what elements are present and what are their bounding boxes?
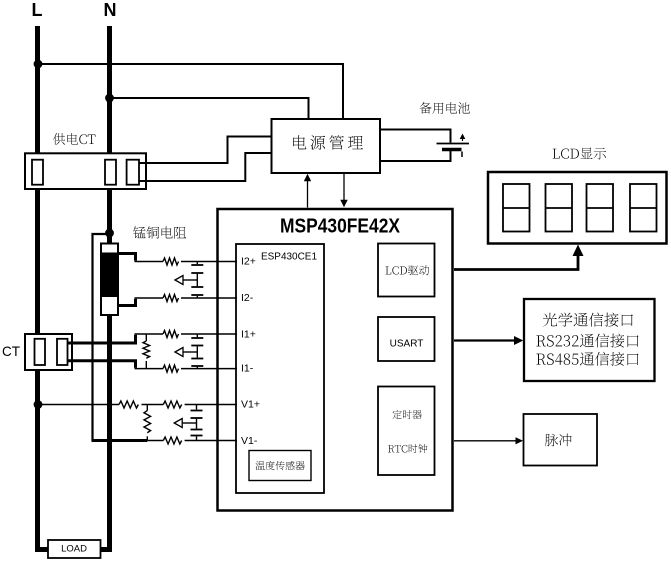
svg-text:I1+: I1+ [241, 329, 256, 341]
transformer: CT box [25, 334, 72, 370]
CT winding secondary [57, 339, 68, 365]
resistor I2+ [163, 258, 179, 265]
label temperature sensor (wendu chuanganqi) [256, 461, 305, 470]
wire N mains line [100, 26, 110, 550]
resistor V1- [163, 437, 181, 444]
capacitor C-I1 bottom [191, 358, 203, 360]
arrow timer to pulse box [454, 440, 517, 442]
battery positive plate [437, 143, 470, 145]
label power management (dianyuan guanli) [293, 135, 363, 150]
supply CT winding N [105, 160, 116, 185]
arrow USART to comm box [454, 339, 516, 341]
wire I2+ to pin [135, 261, 164, 263]
wire I1+ resistor to ESP pin [181, 333, 237, 335]
label manganin resistor (mengtong dianzu) [133, 226, 186, 238]
node L tap junction [34, 60, 43, 69]
capacitor C-I2 top [196, 262, 198, 265]
LCD digit 1 [503, 184, 530, 232]
node shunt top junction [105, 229, 114, 238]
wire I2- to pin [135, 297, 164, 299]
supply CT output winding [127, 160, 139, 185]
block: timer / RTC [378, 387, 435, 476]
wire I1- resistor to ESP pin [181, 368, 237, 370]
block: temperature sensor [249, 451, 311, 481]
block: communication interfaces [524, 299, 655, 381]
wire power to battery bottom [379, 151, 451, 162]
svg-text:LOAD: LOAD [61, 544, 87, 555]
arrow power management to MSP (down) [343, 174, 345, 201]
wire MSP to LCD display [454, 252, 578, 270]
wire N to power management [110, 98, 309, 120]
supply CT winding L [32, 160, 43, 185]
capacitor C-V1 bottom [191, 429, 203, 431]
label supply CT (gongdian CT) [53, 133, 96, 145]
wire I2- resistor to ESP pin [181, 297, 237, 299]
resistor: manganin shunt body [101, 244, 118, 316]
block: pulse output [524, 414, 598, 466]
svg-text:MSP430FE42X: MSP430FE42X [280, 215, 400, 238]
wire I1- to pin [135, 368, 164, 370]
capacitor C-I1 top [196, 334, 198, 337]
block: USART [378, 317, 435, 361]
node N tap junction [105, 94, 114, 103]
label pulse (maichong) [545, 434, 572, 447]
svg-text:I1-: I1- [241, 363, 254, 375]
reference arrow C-I1 [183, 351, 197, 353]
reference arrow C-I2 [183, 279, 197, 281]
wire V1+ resistor to ESP pin [185, 404, 237, 406]
wire V1- divider to resistor [147, 440, 163, 442]
battery minus tick [461, 152, 463, 158]
LCD digit 2 [546, 184, 573, 232]
svg-text:V1+: V1+ [241, 399, 260, 411]
svg-text:ESP430CE1: ESP430CE1 [261, 251, 317, 263]
block: MSP430FE42X MCU [218, 209, 453, 511]
wire V1- resistor to ESP pin [185, 440, 237, 442]
label RS232 comm interface [536, 333, 638, 347]
wire V1+ between resistors [142, 404, 164, 406]
wire CT sense I1+ thick [67, 335, 136, 343]
LCD digit 4 [630, 184, 657, 232]
block: LOAD [48, 540, 101, 558]
manganin shunt black element [102, 253, 117, 298]
battery negative plate [442, 148, 462, 152]
resistor V1+ second [163, 401, 181, 408]
CT winding primary [35, 339, 46, 365]
wire I1+ to pin [135, 333, 164, 335]
resistor I1- [163, 365, 179, 372]
svg-text:V1-: V1- [241, 435, 258, 447]
wire power to battery top [379, 130, 451, 143]
resistor I2- [163, 295, 179, 302]
wire supply CT output B [139, 153, 272, 181]
label LCD display label [553, 148, 607, 160]
battery plus mark arrow [462, 136, 464, 141]
wire V1- thick [92, 439, 148, 442]
block: LCD driver [378, 244, 435, 297]
svg-text:N: N [104, 0, 117, 20]
label timer (dingshiqi) [393, 410, 422, 419]
block: power management (dianyuan guanli) [272, 119, 381, 173]
transformer: supply CT box [25, 153, 146, 189]
label backup battery (beiyong dianchi) [420, 102, 470, 114]
wire V1 tap from shunt top [93, 234, 110, 441]
label RS485 comm interface [536, 352, 638, 366]
resistor divider (vertical) [146, 405, 148, 411]
wire shunt sense I2- thick [117, 299, 136, 306]
wire I2+ resistor to ESP pin [181, 261, 237, 263]
resistor burden (vertical) [145, 334, 147, 341]
arrow MSP to power management (up) [307, 180, 309, 208]
svg-text:I2+: I2+ [241, 256, 256, 268]
wire CT sense I1- thick [67, 361, 136, 368]
wire shunt sense I2+ thick [117, 254, 136, 261]
label RTC clock (RTC shizhong) [388, 444, 427, 453]
node L voltage tap junction [34, 400, 43, 409]
svg-text:I2-: I2- [241, 292, 254, 304]
wire L to V1+ [40, 404, 119, 406]
wire L to power management [39, 64, 343, 120]
LCD digit 3 [587, 184, 614, 232]
label LCD driver (LCD qudong) [386, 265, 430, 275]
wire L mains line [38, 26, 49, 550]
capacitor C-I2 bottom [191, 286, 203, 288]
block: ESP430CE1 [236, 244, 324, 493]
svg-text:L: L [32, 0, 43, 20]
block: LCD display panel [488, 172, 667, 244]
wire supply CT output A [139, 137, 272, 164]
resistor V1+ first [119, 401, 138, 408]
reference arrow C-V1 [182, 422, 196, 424]
svg-text:CT: CT [2, 343, 20, 359]
resistor I1+ [163, 331, 179, 338]
capacitor C-V1 top [196, 405, 198, 410]
svg-text:USART: USART [390, 339, 424, 350]
label optical comm interface [543, 312, 633, 326]
